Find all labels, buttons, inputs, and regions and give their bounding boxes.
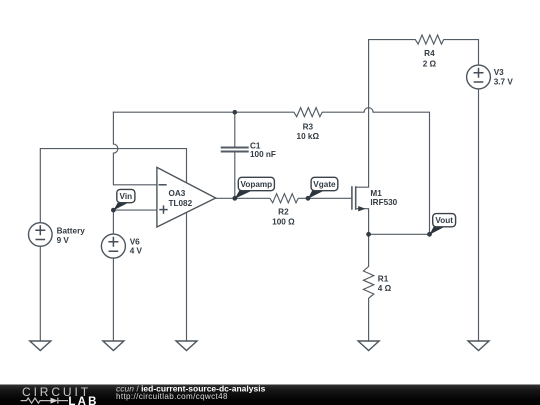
svg-text:Vout: Vout bbox=[435, 216, 453, 225]
svg-text:Battery: Battery bbox=[57, 227, 86, 236]
svg-text:R1: R1 bbox=[378, 274, 389, 283]
svg-text:http://circuitlab.com/cqwct48: http://circuitlab.com/cqwct48 bbox=[116, 392, 228, 401]
svg-text:4 Ω: 4 Ω bbox=[378, 284, 392, 293]
svg-text:R2: R2 bbox=[278, 208, 289, 217]
svg-text:V6: V6 bbox=[130, 237, 140, 246]
svg-text:LAB: LAB bbox=[68, 396, 98, 405]
svg-text:C1: C1 bbox=[250, 141, 261, 150]
svg-text:10 kΩ: 10 kΩ bbox=[297, 132, 320, 141]
svg-text:3.7 V: 3.7 V bbox=[494, 77, 514, 86]
svg-text:V3: V3 bbox=[494, 68, 504, 77]
svg-text:R4: R4 bbox=[424, 49, 435, 58]
svg-text:2 Ω: 2 Ω bbox=[423, 59, 437, 68]
svg-text:Vin: Vin bbox=[120, 192, 133, 201]
svg-text:IRF530: IRF530 bbox=[370, 198, 397, 207]
svg-text:9 V: 9 V bbox=[57, 236, 70, 245]
svg-text:OA3: OA3 bbox=[169, 189, 186, 198]
svg-text:4 V: 4 V bbox=[130, 247, 143, 256]
svg-text:TL082: TL082 bbox=[169, 199, 193, 208]
svg-text:R3: R3 bbox=[303, 122, 314, 131]
svg-text:Vgate: Vgate bbox=[313, 180, 336, 189]
svg-text:100 nF: 100 nF bbox=[250, 150, 276, 159]
svg-text:M1: M1 bbox=[370, 189, 382, 198]
svg-text:Vopamp: Vopamp bbox=[240, 180, 272, 189]
svg-text:100 Ω: 100 Ω bbox=[272, 217, 295, 226]
